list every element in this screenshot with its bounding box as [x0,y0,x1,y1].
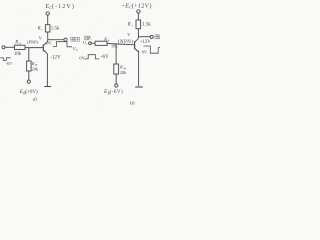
svg-text:20k: 20k [32,66,39,71]
svg-text:+6V: +6V [100,55,109,60]
svg-text:(NPN): (NPN) [118,40,134,45]
svg-text:R: R [119,64,123,69]
svg-text:-6V: -6V [6,61,13,66]
svg-text:(-12V): (-12V) [52,3,75,10]
svg-text:1.5k: 1.5k [142,23,151,28]
svg-text:R: R [37,26,41,31]
svg-text:10k: 10k [111,44,118,49]
svg-text:0V: 0V [142,50,148,55]
svg-text:0V: 0V [46,41,52,46]
svg-text:10k: 10k [14,52,22,57]
svg-text:R: R [14,40,18,45]
svg-text:b): b) [130,101,135,106]
svg-text:0V: 0V [79,56,85,61]
svg-text:i: i [86,42,87,46]
svg-text:R: R [127,23,131,28]
svg-text:+12V: +12V [140,40,151,45]
svg-text:a): a) [33,98,37,103]
svg-text:C: C [49,6,52,10]
svg-text:(+12V): (+12V) [132,2,152,9]
svg-text:(PNP): (PNP) [27,39,39,44]
svg-text:R: R [103,36,107,41]
svg-text:-12V: -12V [50,56,61,61]
svg-text:(+6V): (+6V) [25,90,38,95]
svg-text:20k: 20k [120,70,127,75]
svg-text:(-6V): (-6V) [110,90,124,95]
